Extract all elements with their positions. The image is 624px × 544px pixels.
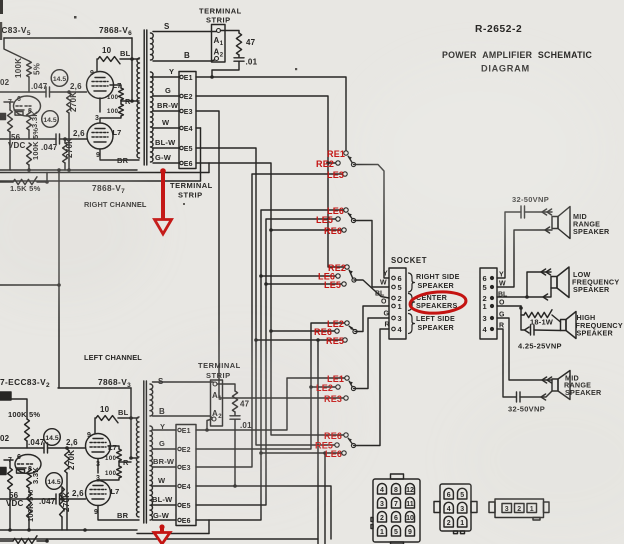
svg-text:LE3: LE3: [327, 170, 344, 180]
svg-text:E5: E5: [184, 146, 193, 153]
svg-text:E5: E5: [182, 503, 191, 510]
svg-text:RE6: RE6: [324, 226, 342, 236]
svg-text:Y: Y: [169, 67, 174, 76]
svg-text:BR-W: BR-W: [157, 101, 179, 110]
svg-text:R: R: [385, 322, 390, 329]
svg-text:SPEAKER: SPEAKER: [418, 281, 455, 290]
svg-text:18-1W: 18-1W: [530, 318, 554, 327]
svg-text:.047: .047: [41, 143, 58, 152]
svg-text:6: 6: [394, 515, 398, 522]
svg-text:100: 100: [107, 109, 119, 115]
svg-text:LEFT CHANNEL: LEFT CHANNEL: [84, 353, 142, 362]
svg-text:3: 3: [460, 506, 464, 513]
svg-text:5: 5: [460, 492, 464, 499]
svg-text:6: 6: [17, 454, 21, 461]
svg-text:RE1: RE1: [327, 149, 345, 159]
svg-text:2: 2: [447, 520, 451, 527]
svg-text:BL: BL: [498, 292, 508, 299]
svg-text:SPEAKER: SPEAKER: [573, 285, 610, 294]
svg-text:SPEAKER: SPEAKER: [577, 329, 614, 338]
svg-text:S: S: [164, 22, 170, 31]
svg-text:G-W: G-W: [155, 153, 172, 162]
svg-text:5: 5: [483, 283, 487, 292]
svg-text:1: 1: [460, 520, 464, 527]
svg-text:270K: 270K: [65, 138, 74, 158]
svg-text:11: 11: [406, 501, 414, 508]
svg-text:W: W: [380, 280, 387, 287]
svg-text:POWER AMPLIFIER SCHEMATIC: POWER AMPLIFIER SCHEMATIC: [442, 50, 592, 60]
svg-text:2,6: 2,6: [66, 438, 78, 447]
svg-text:G: G: [499, 312, 505, 319]
svg-text:BL: BL: [375, 291, 385, 298]
svg-text:STRIP: STRIP: [206, 16, 231, 25]
svg-text:3: 3: [398, 314, 402, 323]
svg-text:4.25-25VNP: 4.25-25VNP: [518, 342, 562, 351]
svg-text:BL: BL: [118, 408, 129, 417]
svg-text:RE5: RE5: [326, 336, 344, 346]
svg-text:3: 3: [95, 115, 99, 122]
svg-text:B: B: [184, 51, 190, 60]
svg-text:E4: E4: [184, 126, 193, 133]
svg-text:SPEAKER: SPEAKER: [418, 323, 455, 332]
svg-text:3: 3: [96, 461, 100, 468]
svg-text:1: 1: [398, 302, 402, 311]
svg-text:E6: E6: [182, 518, 191, 525]
svg-text:Y: Y: [499, 272, 504, 279]
svg-text:4: 4: [447, 506, 451, 513]
svg-text:2,6: 2,6: [72, 489, 84, 498]
svg-text:12: 12: [406, 487, 414, 494]
svg-text:SPEAKER: SPEAKER: [573, 227, 610, 236]
svg-text:LEFT SIDE: LEFT SIDE: [416, 314, 455, 323]
svg-text:.047: .047: [28, 438, 45, 447]
svg-text:3: 3: [96, 475, 100, 482]
svg-text:9: 9: [94, 509, 98, 516]
svg-text:L7: L7: [113, 81, 122, 90]
svg-text:1: 1: [483, 302, 487, 311]
svg-text:LE5: LE5: [316, 215, 333, 225]
svg-text:R: R: [125, 97, 131, 106]
svg-text:14.5: 14.5: [45, 435, 58, 442]
svg-text:8: 8: [394, 487, 398, 494]
svg-text:W: W: [162, 118, 170, 127]
svg-text:STRIP: STRIP: [178, 191, 203, 200]
svg-text:7: 7: [8, 457, 12, 464]
svg-text:10: 10: [102, 46, 112, 55]
svg-text:E3: E3: [184, 109, 193, 116]
svg-text:10: 10: [100, 405, 110, 414]
svg-text:9: 9: [96, 152, 100, 159]
svg-text:O: O: [499, 300, 505, 307]
svg-text:3: 3: [483, 314, 487, 323]
svg-text:3.3K: 3.3K: [31, 467, 40, 484]
svg-text:E1: E1: [184, 75, 193, 82]
svg-text:G: G: [165, 86, 171, 95]
svg-text:7: 7: [394, 501, 398, 508]
svg-text:G-W: G-W: [153, 511, 170, 520]
svg-text:BR: BR: [117, 511, 129, 520]
svg-text:O: O: [381, 299, 387, 306]
svg-text:2: 2: [380, 515, 384, 522]
svg-text:L7: L7: [108, 443, 117, 452]
svg-text:R: R: [123, 458, 129, 467]
svg-text:9: 9: [87, 432, 91, 439]
svg-text:L7: L7: [111, 487, 120, 496]
svg-text:Y: Y: [383, 271, 388, 278]
svg-text:5: 5: [398, 283, 402, 292]
svg-text:100K 5%: 100K 5%: [26, 490, 35, 522]
svg-text:SPEAKERS: SPEAKERS: [416, 301, 458, 310]
svg-text:W: W: [499, 281, 506, 288]
svg-text:RIGHT SIDE: RIGHT SIDE: [416, 272, 460, 281]
svg-text:6: 6: [398, 274, 402, 283]
svg-text:TERMINAL: TERMINAL: [199, 7, 242, 16]
svg-text:R: R: [499, 323, 504, 330]
svg-text:3: 3: [380, 501, 384, 508]
svg-text:9: 9: [408, 529, 412, 536]
svg-text:LE5: LE5: [324, 280, 341, 290]
svg-text:.047: .047: [39, 497, 56, 506]
svg-text:9: 9: [90, 70, 94, 77]
svg-text:6: 6: [483, 274, 487, 283]
svg-text:47: 47: [246, 38, 256, 47]
svg-text:1: 1: [380, 529, 384, 536]
svg-text:BL-W: BL-W: [152, 495, 173, 504]
svg-text:BR: BR: [117, 156, 129, 165]
svg-text:100: 100: [107, 95, 119, 101]
svg-text:RE2: RE2: [316, 159, 334, 169]
svg-text:02: 02: [0, 434, 10, 443]
svg-text:BL-W: BL-W: [155, 138, 176, 147]
svg-text:R-2652-2: R-2652-2: [475, 24, 522, 35]
svg-text:TERMINAL: TERMINAL: [170, 181, 213, 190]
svg-text:270K: 270K: [62, 492, 71, 512]
svg-text:2,6: 2,6: [73, 129, 85, 138]
svg-text:G: G: [384, 311, 390, 318]
svg-text:L7: L7: [113, 128, 122, 137]
svg-text:10: 10: [406, 515, 414, 522]
svg-text:4: 4: [380, 487, 384, 494]
svg-text:BL: BL: [120, 49, 131, 58]
svg-text:E6: E6: [184, 161, 193, 168]
svg-text:270K: 270K: [67, 450, 76, 470]
svg-text:14.5: 14.5: [47, 479, 60, 486]
svg-text:5: 5: [394, 529, 398, 536]
svg-text:E2: E2: [184, 94, 193, 101]
svg-text:100: 100: [105, 456, 117, 462]
svg-text:100K 5%: 100K 5%: [8, 410, 40, 419]
svg-text:VDC: VDC: [6, 499, 24, 508]
svg-text:6: 6: [447, 492, 451, 499]
svg-text:100: 100: [105, 471, 117, 477]
svg-text:.01: .01: [246, 58, 258, 67]
svg-text:SOCKET: SOCKET: [391, 256, 427, 265]
